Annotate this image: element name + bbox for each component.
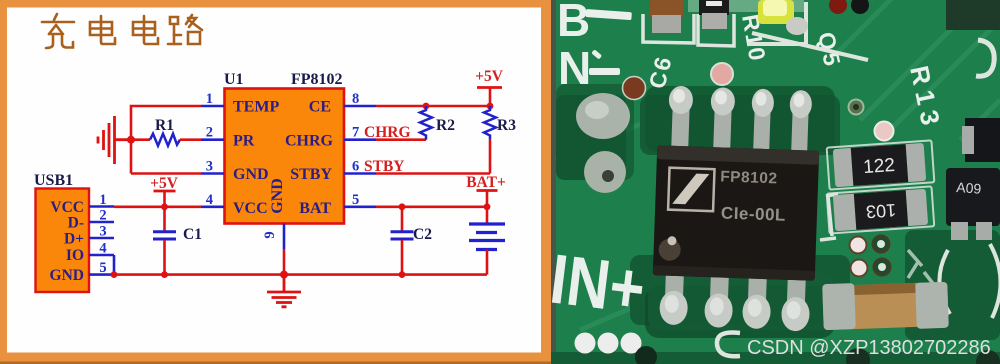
junction C2/GND rail	[399, 271, 406, 278]
svg-text:1: 1	[206, 91, 213, 107]
ground bottom	[267, 275, 301, 307]
silkscreen diagonal near Q5	[752, 33, 868, 60]
wire GND rail	[114, 273, 487, 276]
svg-text:VCC: VCC	[233, 200, 268, 217]
junction BAT/C2	[399, 203, 406, 210]
chip pins bottom	[665, 272, 806, 307]
capacitor C1	[153, 207, 176, 275]
svg-text:2: 2	[99, 208, 106, 224]
silkscreen arc bottom right	[939, 250, 950, 314]
svg-text:VCC: VCC	[50, 199, 84, 216]
IC U1 FP8102 body	[225, 89, 345, 224]
svg-text:D+: D+	[64, 231, 84, 248]
wire pin9 to GND rail	[283, 249, 286, 275]
svg-text:9: 9	[262, 231, 278, 238]
silkscreen label N-	[558, 42, 620, 94]
solder blob big left	[576, 93, 630, 139]
pcb shading around chip	[645, 86, 835, 152]
chip logo	[668, 168, 714, 212]
svg-text:BAT: BAT	[299, 200, 331, 217]
svg-text:4: 4	[99, 241, 106, 257]
via brown left	[623, 77, 646, 100]
junction CE/R2	[423, 103, 430, 110]
svg-text:D-: D-	[68, 215, 84, 232]
svg-text:FP8102: FP8102	[291, 71, 343, 88]
USB1 pin 4 stub	[89, 254, 114, 257]
svg-text:C2: C2	[413, 226, 432, 243]
power +5V right	[475, 68, 504, 106]
svg-text:USB1: USB1	[34, 172, 73, 189]
svg-text:U1: U1	[224, 71, 244, 88]
capacitor tan bottom right	[822, 280, 949, 332]
junction CE/+5V	[487, 103, 494, 110]
silkscreen faint marks bottom right	[908, 250, 938, 298]
via pink right	[875, 122, 894, 141]
wire VCC net USB1 to U1 pin4	[114, 206, 201, 209]
svg-text:PR: PR	[233, 133, 255, 150]
U1 pin 4 stub	[201, 206, 224, 209]
resistor R1	[131, 134, 201, 146]
chip body	[653, 145, 819, 281]
junction pin9/GND rail	[280, 271, 288, 279]
IC chip FP8102	[651, 85, 821, 332]
resistor R13 122	[827, 140, 935, 189]
wire R3 to STBY	[489, 140, 492, 174]
svg-text:5: 5	[99, 260, 106, 276]
svg-text:6: 6	[352, 159, 359, 175]
svg-text:3: 3	[99, 224, 106, 240]
USB1 pin 3 stub	[89, 237, 114, 240]
svg-text:+5V: +5V	[475, 68, 504, 85]
junction +5V/VCC/C1	[161, 203, 168, 210]
U1 pin 3 stub	[201, 172, 224, 175]
svg-text:CHRG: CHRG	[285, 133, 334, 150]
svg-text:5: 5	[352, 192, 359, 208]
overexposed top strip	[688, 0, 804, 12]
via red top	[829, 0, 847, 14]
svg-text:2: 2	[206, 125, 213, 141]
pcb trace texture	[556, 0, 1000, 330]
battery BT1	[469, 207, 505, 275]
svg-text:GND: GND	[233, 166, 269, 183]
wire IO to GND rail	[113, 255, 116, 275]
resistor 103	[827, 186, 935, 233]
wire STBY net	[376, 172, 490, 175]
via dark bottom	[635, 346, 657, 364]
component right edge upper	[962, 118, 1000, 162]
USB1 pin 5 stub	[89, 273, 114, 276]
svg-text:+5V: +5V	[150, 175, 179, 192]
connector USB1	[36, 189, 90, 293]
svg-text:STBY: STBY	[290, 166, 332, 183]
capacitor top-left brown	[650, 0, 683, 33]
svg-text:CSDN @XZP13802702286: CSDN @XZP13802702286	[747, 337, 991, 359]
U1 pin 6 stub	[344, 172, 376, 175]
solder blob left circle	[584, 151, 626, 193]
wire CHRG net	[376, 138, 426, 141]
U1 pin 8 stub	[344, 105, 376, 108]
svg-text:R3: R3	[497, 117, 516, 134]
silkscreen LED frame	[748, 2, 806, 44]
svg-text:7: 7	[352, 125, 359, 141]
pcb background	[551, 0, 1000, 364]
resistor R3	[484, 106, 496, 140]
silkscreen partial letter right edge	[976, 40, 994, 76]
transistor right SOT-23	[946, 168, 1000, 240]
capacitor C2	[391, 207, 414, 275]
power +5V left	[150, 175, 179, 207]
svg-text:1: 1	[99, 192, 106, 208]
silkscreen squiggle bottom	[717, 332, 740, 356]
U1 pin 9 stub	[283, 224, 286, 250]
wire BAT net	[376, 206, 487, 209]
svg-text:103: 103	[865, 200, 896, 222]
junction node A	[127, 136, 135, 144]
svg-text:C1: C1	[183, 226, 202, 243]
U1 pin 1 stub	[201, 105, 224, 108]
label BAT+	[466, 174, 506, 207]
U1 pin 5 stub	[344, 206, 376, 209]
junction C1/GND rail	[161, 271, 168, 278]
svg-text:R2: R2	[436, 117, 455, 134]
silkscreen brackets top components	[643, 14, 734, 46]
svg-text:CE: CE	[309, 99, 331, 116]
svg-text:B: B	[557, 0, 590, 46]
svg-text:8: 8	[352, 91, 359, 107]
silkscreen three dots	[575, 333, 642, 354]
svg-text:IN+: IN+	[546, 239, 649, 329]
svg-text:N: N	[558, 42, 591, 94]
title 充电电路	[42, 14, 202, 48]
via green right	[849, 100, 864, 115]
USB1 pin 1 stub	[89, 205, 114, 208]
dots cluster white/pink	[850, 236, 891, 277]
wire to pin3	[131, 172, 201, 175]
svg-text:A09: A09	[956, 179, 982, 197]
svg-text:TEMP: TEMP	[233, 99, 279, 116]
via pink top middle	[711, 63, 733, 85]
via black top	[851, 0, 869, 14]
wire CE net	[376, 105, 490, 108]
svg-text:R1: R1	[155, 117, 174, 134]
U1 pin 7 stub	[344, 138, 376, 141]
svg-text:GND: GND	[50, 267, 84, 284]
chip pins top	[671, 106, 808, 153]
U1 pin 2 stub	[201, 138, 224, 141]
svg-text:BAT+: BAT+	[466, 174, 506, 191]
node A vertical wire pin1-pin3	[131, 106, 201, 174]
svg-text:CIe-00L: CIe-00L	[721, 203, 787, 224]
svg-text:3: 3	[206, 159, 213, 175]
junction IO/GND rail	[111, 271, 118, 278]
resistor R2	[420, 106, 432, 140]
svg-text:4: 4	[206, 192, 213, 208]
component top black	[699, 0, 729, 29]
svg-text:122: 122	[863, 155, 896, 178]
svg-text:GND: GND	[269, 178, 286, 214]
chip smudge	[658, 238, 681, 261]
silkscreen bracket right of chip	[820, 194, 838, 240]
svg-text:IO: IO	[66, 247, 84, 264]
dark corner component top right	[946, 0, 1000, 30]
silkscreen label B-	[557, 0, 632, 46]
svg-text:FP8102: FP8102	[720, 168, 778, 187]
USB1 pin 2 stub	[89, 221, 114, 224]
ground left (sideways)	[98, 116, 131, 164]
junction BAT/battery	[484, 203, 491, 210]
LED D5 yellow	[758, 0, 808, 35]
